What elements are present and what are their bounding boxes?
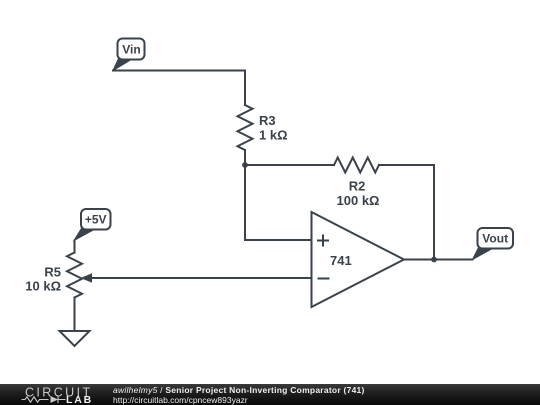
wire Vin to R3 top	[113, 71, 245, 106]
wire R3 bottom to node	[244, 150, 246, 165]
svg-text:1 kΩ: 1 kΩ	[259, 128, 288, 143]
node junction R3/R2	[242, 162, 248, 168]
footer bar	[0, 384, 540, 405]
wire node to op-amp + input	[245, 165, 311, 240]
svg-text:Vin: Vin	[122, 43, 140, 57]
flag Vin	[113, 39, 145, 71]
wire +5V to R5 top	[74, 241, 76, 253]
flag +5V	[74, 209, 111, 241]
resistor R2	[334, 158, 379, 173]
potentiometer R5 zigzag	[67, 253, 82, 298]
svg-text:R2: R2	[349, 179, 366, 194]
wire op-amp output to Vout	[404, 259, 473, 261]
svg-text:R3: R3	[259, 113, 276, 128]
wire R5 bottom to ground	[74, 298, 76, 331]
svg-text:100 kΩ: 100 kΩ	[337, 193, 380, 208]
svg-text:10 kΩ: 10 kΩ	[25, 279, 61, 294]
svg-text:LAB: LAB	[66, 394, 93, 405]
svg-text:741: 741	[330, 253, 352, 268]
logo diode	[51, 396, 59, 403]
svg-text:R5: R5	[44, 264, 61, 279]
resistor R3	[238, 105, 253, 150]
wire node to R2 left	[245, 164, 334, 166]
wire R2 right down to output node	[379, 165, 434, 260]
R5 wiper arrowhead	[81, 273, 93, 283]
footer title	[113, 386, 365, 395]
op-amp U1 741	[312, 212, 405, 307]
logo resistor squiggle	[22, 397, 49, 402]
svg-text:Vout: Vout	[482, 232, 508, 246]
flag Vout	[473, 228, 514, 260]
node output junction	[431, 257, 437, 263]
svg-text:+5V: +5V	[85, 213, 107, 227]
ground	[60, 331, 90, 346]
footer url	[113, 396, 248, 405]
wire R5 wiper to op-amp - input	[92, 277, 311, 279]
